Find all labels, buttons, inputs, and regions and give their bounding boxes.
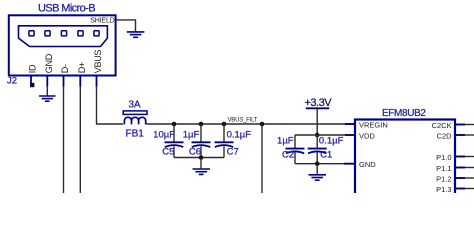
svg-text:VREGIN: VREGIN [359, 121, 388, 130]
pin GND [344, 160, 376, 169]
power +3.3V [305, 97, 333, 135]
junction C6 bottom [199, 155, 204, 160]
svg-text:C1: C1 [320, 150, 332, 161]
svg-text:10µF: 10µF [153, 130, 175, 141]
svg-text:0.1µF: 0.1µF [227, 130, 252, 141]
pin label ID [28, 64, 38, 73]
capacitor C7 [215, 124, 234, 158]
junction C1 bottom [315, 161, 320, 166]
wire C2 top rail [295, 134, 317, 136]
wire capacitor bottom rail [174, 157, 224, 159]
pin VDD [345, 132, 375, 141]
label EFM8UB2 [382, 108, 426, 119]
IC EFM8UB2 body [355, 120, 455, 198]
ref label C5 [162, 147, 174, 158]
connector J2 body [9, 15, 116, 75]
capacitor C5 [165, 124, 184, 158]
wire D- [63, 76, 65, 193]
svg-text:P1.3: P1.3 [436, 185, 451, 193]
svg-text:ID: ID [28, 64, 38, 73]
svg-text:C7: C7 [227, 147, 239, 158]
capacitor C2 [286, 135, 305, 164]
wire C2D [465, 134, 474, 136]
ground (C1 C2) [309, 164, 327, 181]
value label 3A [128, 100, 141, 111]
svg-text:VBUS_FILT: VBUS_FILT [228, 117, 258, 123]
ferrite bead FB1 [123, 111, 147, 125]
svg-text:C6: C6 [189, 147, 201, 158]
net label VBUS_FILT [228, 117, 258, 123]
svg-text:C2D: C2D [437, 132, 453, 141]
wire branch down to edge [261, 124, 263, 193]
pin label VBUS [93, 50, 103, 74]
pin stub ID with no-connect [30, 76, 34, 87]
ground (C5 C6 C7) [193, 158, 211, 175]
svg-text:0.1µF: 0.1µF [319, 136, 344, 147]
ref label FB1 [126, 129, 145, 140]
wire P1.0 [465, 156, 474, 158]
value label 0.1uF (C1) [319, 136, 344, 147]
svg-text:+3.3V: +3.3V [305, 97, 333, 109]
wire VDD [317, 134, 346, 136]
svg-text:USB Micro-B: USB Micro-B [38, 3, 95, 15]
pin C2D [437, 132, 465, 141]
junction C6 tap [199, 122, 204, 127]
capacitor C1 [308, 135, 327, 164]
pin P1.2 [436, 175, 465, 184]
label USB Micro-B [38, 3, 95, 15]
wire SHIELD to ground [116, 20, 136, 32]
pin P1.3 [436, 185, 465, 194]
label J2 [7, 76, 17, 87]
wire D+ [79, 76, 81, 193]
svg-text:P1.1: P1.1 [436, 164, 451, 173]
svg-text:P1.2: P1.2 [436, 175, 451, 184]
pin stub GND wire [46, 76, 48, 96]
pin label GND [44, 53, 54, 73]
junction C7 tap [222, 122, 227, 127]
junction VDD node [315, 133, 320, 138]
ground (shield) [127, 32, 145, 37]
pin C2CK [432, 121, 465, 130]
svg-text:D+: D+ [77, 62, 87, 73]
svg-text:C2CK: C2CK [432, 121, 452, 130]
svg-text:3A: 3A [128, 100, 141, 111]
ground (USB GND pin) [39, 96, 56, 101]
pin P1.1 [436, 164, 465, 173]
wire net VBUS_FILT [147, 123, 347, 125]
wire P1.3 [465, 188, 474, 190]
ref label C7 [227, 147, 239, 158]
value label 1uF [183, 130, 200, 141]
wire GND rail to chip [295, 163, 346, 165]
junction C5 tap [172, 122, 177, 127]
svg-text:J2: J2 [7, 76, 17, 87]
ref label C6 [189, 147, 201, 158]
svg-text:1µF: 1µF [183, 130, 200, 141]
wire P1.2 [465, 177, 474, 179]
svg-text:VDD: VDD [359, 132, 375, 141]
svg-text:1µF: 1µF [277, 136, 294, 147]
wire VBUS to FB1 [97, 76, 124, 124]
svg-text:C2: C2 [282, 150, 294, 161]
svg-text:VBUS: VBUS [93, 50, 103, 74]
svg-text:SHIELD: SHIELD [90, 18, 114, 25]
svg-text:P1.0: P1.0 [436, 153, 451, 162]
pin P1.0 [436, 153, 465, 162]
svg-text:D-: D- [60, 64, 70, 73]
pin label D- [60, 64, 70, 73]
ref label C1 [320, 150, 332, 161]
wire C2CK [465, 124, 474, 126]
svg-text:EFM8UB2: EFM8UB2 [382, 108, 426, 119]
value label 0.1uF [227, 130, 252, 141]
svg-text:GND: GND [44, 53, 54, 73]
junction branch down [260, 122, 265, 127]
value label 10uF [153, 130, 175, 141]
wire P1.1 [465, 167, 474, 169]
pin label D+ [77, 62, 87, 73]
capacitor C6 [192, 124, 211, 158]
svg-text:FB1: FB1 [126, 129, 145, 140]
value label 1uF (C2) [277, 136, 294, 147]
ref label C2 [282, 150, 294, 161]
svg-text:GND: GND [359, 160, 376, 169]
svg-text:C5: C5 [162, 147, 174, 158]
label SHIELD [90, 18, 114, 25]
pin VREGIN [345, 121, 388, 130]
